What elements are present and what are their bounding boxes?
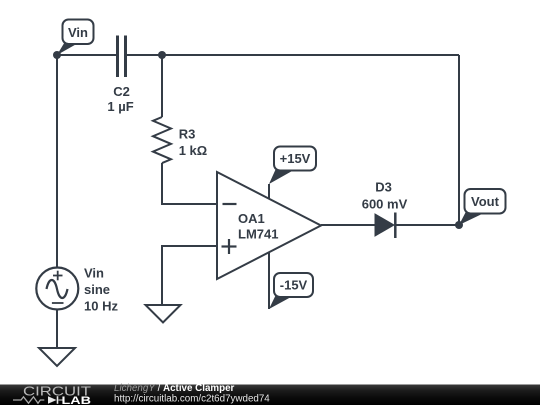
svg-text:D3: D3 <box>375 180 392 195</box>
flag -15V <box>269 273 313 309</box>
value 1 uF <box>107 99 133 114</box>
value sine <box>84 282 110 297</box>
svg-text:LM741: LM741 <box>238 227 278 242</box>
svg-text:LAB: LAB <box>62 395 92 405</box>
wire source bottom to ground <box>56 310 58 349</box>
label R3 <box>179 127 196 142</box>
wire diode cathode to Vout node <box>396 224 459 226</box>
diode D3 <box>375 213 395 239</box>
svg-text:-15V: -15V <box>280 278 308 293</box>
flag Vin <box>57 20 94 56</box>
value 600 mV <box>362 196 408 211</box>
wire non-inverting input to ground corner <box>162 246 217 305</box>
wire op-amp output to diode D3 anode <box>321 224 375 226</box>
svg-text:1 µF: 1 µF <box>107 99 133 114</box>
wire top rail from C2 right plate to top-right corner <box>126 54 459 56</box>
svg-text:OA1: OA1 <box>238 211 265 226</box>
svg-text:C2: C2 <box>113 84 130 99</box>
label Vin (source name) <box>84 266 104 281</box>
footer title text <box>114 383 235 394</box>
wire from node B down to resistor R3 <box>161 55 163 117</box>
svg-text:http://circuitlab.com/c2t6d7yw: http://circuitlab.com/c2t6d7ywded74 <box>114 394 270 405</box>
CircuitLab logo <box>13 385 91 405</box>
svg-text:Vout: Vout <box>471 194 500 209</box>
label D3 <box>375 180 392 195</box>
wire negative supply pin <box>268 252 270 309</box>
voltage source V1 (Vin sine) <box>36 268 78 310</box>
label C2 <box>113 84 130 99</box>
wire from R3 bottom to inverting input corner <box>162 163 217 204</box>
footer url text <box>114 394 270 405</box>
flag +15V <box>269 147 316 185</box>
svg-text:10 Hz: 10 Hz <box>84 299 118 314</box>
svg-text:R3: R3 <box>179 127 196 142</box>
footer bar <box>0 385 540 405</box>
svg-text:600 mV: 600 mV <box>362 196 408 211</box>
node A junction dot (Vin node) <box>53 51 61 59</box>
capacitor C2 <box>118 36 126 78</box>
svg-text:+15V: +15V <box>280 151 311 166</box>
node B junction dot (C2/R3 junction) <box>158 51 166 59</box>
svg-text:1 kΩ: 1 kΩ <box>179 143 208 158</box>
ground (source) <box>39 348 75 366</box>
value 1 kOhm <box>179 143 208 158</box>
value 10 Hz <box>84 299 118 314</box>
ground (op-amp non-inverting input) <box>146 305 181 323</box>
wire top rail from node A to capacitor C2 left plate <box>57 54 117 56</box>
svg-text:LichengY / Active Clamper: LichengY / Active Clamper <box>114 383 235 394</box>
wire positive supply pin <box>268 184 270 199</box>
flag Vout <box>459 189 506 225</box>
svg-text:Vin: Vin <box>84 266 104 281</box>
op-amp OA1 <box>217 172 321 279</box>
svg-text:sine: sine <box>84 282 110 297</box>
value LM741 <box>238 227 278 242</box>
wire right vertical from top rail down to Vout node <box>458 55 460 225</box>
node Vout junction dot <box>455 221 463 229</box>
wire left vertical from node A to source V1 <box>56 55 58 267</box>
svg-text:Vin: Vin <box>68 25 88 40</box>
resistor R3 <box>153 117 171 163</box>
label OA1 <box>238 211 265 226</box>
